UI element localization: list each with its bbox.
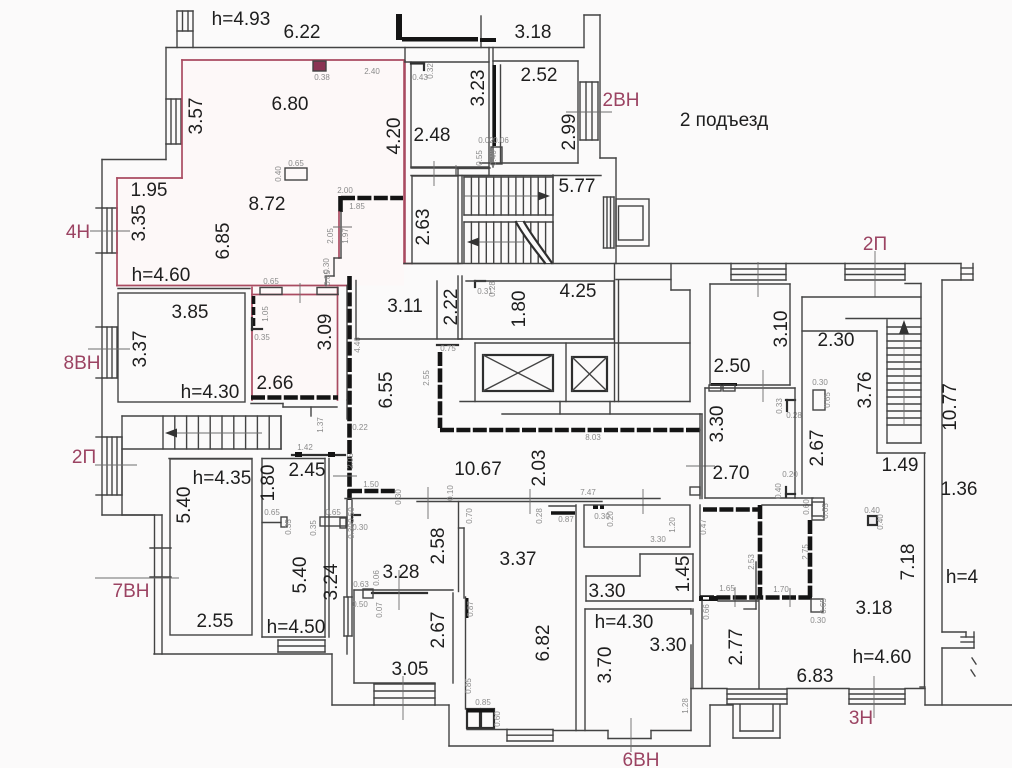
connector xyxy=(609,402,611,415)
svg-text:0.32: 0.32 xyxy=(426,63,435,79)
room 2.63 xyxy=(411,176,413,264)
svg-text:6.55: 6.55 xyxy=(376,372,397,409)
right outer wall xyxy=(941,280,943,632)
room 2.77 walls xyxy=(692,609,694,689)
wall 2.48 left upper xyxy=(404,48,406,63)
svg-text:3.30: 3.30 xyxy=(589,581,626,602)
thick wall bar 2.00 in 8.72 xyxy=(341,196,403,201)
corridor top wall y263 xyxy=(404,263,731,265)
elevator 2 X-box xyxy=(572,357,607,391)
left thick pier 2.55 xyxy=(438,352,443,428)
long wall center-bottom xyxy=(575,505,577,731)
svg-text:0.65: 0.65 xyxy=(819,598,828,614)
room 3.11 bottom xyxy=(356,338,462,340)
svg-text:8.72: 8.72 xyxy=(249,194,286,215)
svg-text:h=4.30: h=4.30 xyxy=(181,382,240,403)
black bar 1.65 xyxy=(699,596,718,601)
window 2.77 xyxy=(727,689,787,704)
svg-text:7.47: 7.47 xyxy=(580,488,596,497)
left wall window stubs xyxy=(96,208,102,495)
svg-text:0.60: 0.60 xyxy=(493,711,502,727)
svg-text:2 подъезд: 2 подъезд xyxy=(680,110,768,131)
svg-text:3.37: 3.37 xyxy=(130,331,151,368)
svg-text:0.75: 0.75 xyxy=(440,344,456,353)
svg-text:0.06: 0.06 xyxy=(372,570,381,586)
window small 3.24 xyxy=(344,597,352,636)
svg-text:3.76: 3.76 xyxy=(855,372,876,409)
svg-text:0.40: 0.40 xyxy=(274,166,283,182)
columns bottom left of 6.82 xyxy=(465,597,467,709)
svg-text:6.80: 6.80 xyxy=(272,94,309,115)
walk line down xyxy=(478,241,525,243)
svg-text:6ВН: 6ВН xyxy=(623,750,660,768)
svg-text:2П: 2П xyxy=(72,447,96,468)
svg-text:3Н: 3Н xyxy=(849,708,873,729)
door mark on red top wall xyxy=(313,61,326,71)
wall 1.42 above 2.45 xyxy=(292,454,345,456)
black bracket 0.87 top xyxy=(549,505,575,507)
stair 5.77 lower flight (vertical treads) xyxy=(464,222,553,263)
svg-text:6.83: 6.83 xyxy=(797,666,834,687)
thick bar 1.50 xyxy=(348,489,396,494)
dim 3.05 xyxy=(402,676,404,720)
svg-text:h=4.93: h=4.93 xyxy=(212,9,271,30)
facade wall 2.77/3.18 xyxy=(691,688,727,690)
svg-text:0.06: 0.06 xyxy=(493,136,509,145)
pier above stairs xyxy=(456,169,489,176)
walk line up xyxy=(464,195,540,197)
svg-text:2.70: 2.70 xyxy=(713,463,750,484)
svg-text:h=4.35: h=4.35 xyxy=(193,468,252,489)
white column 0.30/0.65 xyxy=(813,390,825,410)
svg-text:0.33: 0.33 xyxy=(775,398,784,414)
svg-text:0.30: 0.30 xyxy=(394,489,403,505)
svg-text:2.05: 2.05 xyxy=(326,228,335,244)
svg-text:2.50: 2.50 xyxy=(714,356,751,377)
svg-text:2.52: 2.52 xyxy=(521,65,558,86)
svg-text:1.50: 1.50 xyxy=(363,480,379,489)
svg-text:1.70: 1.70 xyxy=(773,585,789,594)
outline under 2.66 xyxy=(251,403,283,405)
svg-text:1.49: 1.49 xyxy=(882,455,919,476)
shaft wall thick 3.23 xyxy=(493,65,497,146)
svg-text:h=4.30: h=4.30 xyxy=(595,612,654,633)
svg-text:3.57: 3.57 xyxy=(186,98,207,135)
gray wall under red xyxy=(118,288,250,290)
wall step 1.95 xyxy=(102,159,166,161)
svg-text:1.97: 1.97 xyxy=(341,228,350,244)
svg-text:2.45: 2.45 xyxy=(289,460,326,481)
window 3.35 (4H) xyxy=(102,208,117,253)
svg-text:3.85: 3.85 xyxy=(172,302,209,323)
svg-text:0.20: 0.20 xyxy=(782,470,798,479)
svg-text:2.99: 2.99 xyxy=(559,114,580,151)
elevator outer box xyxy=(616,199,649,246)
svg-text:h=4.60: h=4.60 xyxy=(853,647,912,668)
svg-text:4.20: 4.20 xyxy=(384,118,405,155)
svg-text:0.30: 0.30 xyxy=(810,616,826,625)
thick partition 6.55 xyxy=(347,276,352,500)
svg-text:0.35: 0.35 xyxy=(309,520,318,536)
svg-text:1.80: 1.80 xyxy=(258,465,279,502)
room 3.85 xyxy=(118,293,245,402)
room B walls xyxy=(261,459,263,638)
svg-text:0.07: 0.07 xyxy=(375,602,384,618)
window 3.18 xyxy=(849,689,905,704)
red unit outline 4H xyxy=(182,59,404,61)
svg-text:0.87: 0.87 xyxy=(466,601,475,617)
room 3.30 small xyxy=(586,575,640,577)
svg-text:0.10: 0.10 xyxy=(446,485,455,501)
svg-text:0.65: 0.65 xyxy=(288,159,304,168)
svg-text:1.65: 1.65 xyxy=(719,584,735,593)
corridor lines right block xyxy=(802,296,921,298)
dim line 2BH xyxy=(566,111,612,113)
svg-text:6.82: 6.82 xyxy=(533,625,554,662)
svg-text:0.70: 0.70 xyxy=(465,508,474,524)
room 3.30/2.70 right xyxy=(704,388,706,498)
window 2P left xyxy=(102,437,122,495)
wall left of 2.30 xyxy=(801,297,803,494)
stair outline 1.49 xyxy=(877,452,925,454)
wall band above stairs xyxy=(411,167,490,169)
stair box right xyxy=(920,284,922,444)
facade wall with window 6.82 xyxy=(467,729,507,731)
window 2P-a xyxy=(731,264,786,281)
top-left window bay xyxy=(176,11,178,48)
svg-text:2.58: 2.58 xyxy=(428,528,449,565)
svg-text:0.87: 0.87 xyxy=(558,515,574,524)
stair room 5.77 walls xyxy=(411,175,601,177)
svg-text:0.28: 0.28 xyxy=(488,281,497,297)
porch 3H xyxy=(732,705,734,738)
room 2.66/3.09 red box xyxy=(251,288,253,401)
vestibule wall xyxy=(122,514,155,516)
svg-text:0.20: 0.20 xyxy=(606,511,615,527)
svg-text:2.03: 2.03 xyxy=(529,450,550,487)
svg-text:3.05: 3.05 xyxy=(392,659,429,680)
elevator inner box xyxy=(619,206,644,240)
svg-text:0.38: 0.38 xyxy=(314,73,330,82)
wall protrusion top 2BH xyxy=(583,15,585,48)
step to lower-left xyxy=(102,514,162,516)
svg-text:0.65: 0.65 xyxy=(823,392,832,408)
svg-text:1.80: 1.80 xyxy=(509,291,530,328)
corner mark bottom xyxy=(785,487,787,497)
dashed room B xyxy=(762,504,812,506)
svg-text:1.42: 1.42 xyxy=(297,443,313,452)
svg-text:0.60: 0.60 xyxy=(802,499,811,515)
svg-text:10.67: 10.67 xyxy=(454,459,502,480)
room 2.30 top xyxy=(802,330,877,332)
room A left wall xyxy=(699,505,701,597)
black corner marks 2.67 room xyxy=(786,399,795,401)
window 3.57 left xyxy=(166,99,181,144)
wall right of 2.03 xyxy=(699,430,701,499)
svg-text:2.53: 2.53 xyxy=(747,554,756,570)
shaft hatch xyxy=(604,197,615,248)
window 2P-b xyxy=(845,264,905,281)
black L mark left xyxy=(251,318,253,330)
svg-text:2.00: 2.00 xyxy=(337,186,353,195)
svg-text:0.65: 0.65 xyxy=(263,277,279,286)
svg-text:8ВН: 8ВН xyxy=(64,353,101,374)
svg-text:3.70: 3.70 xyxy=(595,647,616,684)
wall step down to h=4.60 xyxy=(334,257,341,259)
svg-text:2П: 2П xyxy=(863,234,887,255)
window 2BH xyxy=(580,82,598,140)
svg-text:3.11: 3.11 xyxy=(387,296,423,317)
unit 4H pink tint xyxy=(117,60,404,286)
svg-text:1.20: 1.20 xyxy=(668,517,677,533)
door gap wall right of h=4.30 xyxy=(744,608,756,610)
column above room A xyxy=(690,487,700,495)
wall stub right xyxy=(905,283,921,285)
corner mark 1.80 room xyxy=(475,280,485,282)
svg-text:1.85: 1.85 xyxy=(349,202,365,211)
stair cut curve xyxy=(516,222,552,263)
svg-text:2.66: 2.66 xyxy=(257,373,294,394)
small black marks 0.30/0.20 xyxy=(593,505,598,509)
svg-text:0.65: 0.65 xyxy=(264,508,280,517)
svg-text:0.40: 0.40 xyxy=(876,514,885,530)
svg-text:3.37: 3.37 xyxy=(500,549,537,570)
dashed room A xyxy=(703,507,758,512)
svg-text:0.28: 0.28 xyxy=(786,411,802,420)
small dashes right xyxy=(972,658,976,664)
elevator hall walls xyxy=(475,342,690,344)
bottom wall left block xyxy=(154,653,332,655)
lobby right box xyxy=(670,264,672,291)
shaft box below 3.23 wall xyxy=(491,147,502,164)
svg-text:2.40: 2.40 xyxy=(364,67,380,76)
svg-text:4Н: 4Н xyxy=(66,222,90,243)
window 6.82 xyxy=(507,730,553,742)
svg-text:5.77: 5.77 xyxy=(559,176,596,197)
svg-text:3.28: 3.28 xyxy=(383,562,420,583)
window tick 7BH top xyxy=(150,547,171,549)
svg-text:2.30: 2.30 xyxy=(818,330,855,351)
room 2.48 xyxy=(405,61,489,63)
svg-text:0.55: 0.55 xyxy=(475,150,484,166)
svg-text:2.55: 2.55 xyxy=(422,370,431,386)
room 3.11 top walls xyxy=(355,281,357,340)
svg-text:2.48: 2.48 xyxy=(414,125,451,146)
svg-text:1.37: 1.37 xyxy=(316,417,325,433)
svg-text:0.47: 0.47 xyxy=(699,519,708,535)
svg-text:0.28: 0.28 xyxy=(535,508,544,524)
svg-text:2ВН: 2ВН xyxy=(603,90,640,111)
svg-text:3.24: 3.24 xyxy=(321,563,342,600)
top outer wall xyxy=(166,47,584,49)
room 2.50/3.10 xyxy=(709,284,711,385)
svg-text:2.63: 2.63 xyxy=(413,209,434,246)
corner window top-right xyxy=(960,264,962,281)
svg-text:0.35: 0.35 xyxy=(254,333,270,342)
svg-text:0.22: 0.22 xyxy=(352,423,368,432)
column 0.40 xyxy=(868,516,877,525)
room 2.52 xyxy=(500,65,502,163)
svg-text:2.05: 2.05 xyxy=(346,453,355,469)
svg-text:3.30: 3.30 xyxy=(650,535,666,544)
corridor lower line xyxy=(616,279,671,281)
thick wall 8.03 xyxy=(440,428,700,433)
wall double between 4.25 and lobby xyxy=(614,264,616,402)
wall step 3.09/3.11 area xyxy=(346,286,348,401)
wall left of room 3.05 xyxy=(353,590,355,683)
corridor 3.24 walls xyxy=(346,400,348,419)
svg-text:3.09: 3.09 xyxy=(315,314,336,351)
door marks 3.28 wall xyxy=(363,589,373,598)
stair left wall xyxy=(876,331,878,453)
room 1.80/4.25 xyxy=(466,280,614,282)
svg-text:0.40: 0.40 xyxy=(774,483,783,499)
svg-text:6.22: 6.22 xyxy=(284,22,321,43)
svg-text:1.45: 1.45 xyxy=(673,556,694,593)
wall 2.22 left xyxy=(436,281,438,339)
svg-text:3.10: 3.10 xyxy=(771,311,792,348)
stair right wall xyxy=(552,175,554,264)
room h=4.30 bottom xyxy=(585,608,691,610)
entry recess 6BH xyxy=(607,731,609,739)
svg-text:2.67: 2.67 xyxy=(428,612,449,649)
svg-text:10.77: 10.77 xyxy=(940,383,961,431)
black L marks top of 3.37 room xyxy=(352,514,360,516)
svg-text:5.40: 5.40 xyxy=(174,487,195,524)
terrace edge xyxy=(449,745,710,747)
stair top edge xyxy=(464,176,553,178)
svg-text:3.35: 3.35 xyxy=(129,205,150,242)
equipment box 8.72 room xyxy=(285,168,307,180)
svg-text:7ВН: 7ВН xyxy=(113,581,150,602)
svg-text:6.85: 6.85 xyxy=(213,223,234,260)
partition 1.80/5.40 xyxy=(262,522,281,524)
stair 5.77 upper flight (vertical treads) xyxy=(464,177,553,215)
svg-text:2.77: 2.77 xyxy=(726,629,747,666)
stairs 3.76 xyxy=(887,327,921,425)
svg-text:0.66: 0.66 xyxy=(702,604,711,620)
svg-text:1.05: 1.05 xyxy=(261,306,270,322)
svg-text:0.85: 0.85 xyxy=(464,678,473,694)
svg-text:3.18: 3.18 xyxy=(856,598,893,619)
svg-text:0.50: 0.50 xyxy=(347,507,356,523)
svg-text:1.36: 1.36 xyxy=(941,479,978,500)
svg-text:8.03: 8.03 xyxy=(585,433,601,442)
svg-text:0.02: 0.02 xyxy=(478,136,494,145)
white column top xyxy=(812,502,824,520)
bay window 3.05 xyxy=(374,684,435,705)
corridor walls xyxy=(345,498,660,500)
svg-text:3.30: 3.30 xyxy=(707,406,728,443)
svg-text:0.30: 0.30 xyxy=(347,523,356,539)
corner mark 2.48 xyxy=(411,62,424,64)
bottom bar 2.66 xyxy=(251,395,338,400)
svg-text:h=4.60: h=4.60 xyxy=(132,265,191,286)
room 3.30/1.20 box xyxy=(584,505,690,547)
terrace step xyxy=(448,705,450,746)
wall 1.45 right xyxy=(755,562,757,609)
connector xyxy=(559,402,561,415)
thin wall 1.97 xyxy=(340,212,342,258)
room A h=4.35 xyxy=(170,459,252,635)
svg-text:1.28: 1.28 xyxy=(681,698,690,714)
svg-text:2.22: 2.22 xyxy=(441,289,462,326)
svg-text:3.18: 3.18 xyxy=(515,22,552,43)
svg-text:h=4.50: h=4.50 xyxy=(267,617,326,638)
white column bottom xyxy=(811,599,823,612)
window tick 7BH bottom xyxy=(150,576,171,578)
svg-text:2.67: 2.67 xyxy=(807,430,828,467)
svg-text:0.40: 0.40 xyxy=(489,150,498,166)
svg-text:0.30: 0.30 xyxy=(812,378,828,387)
svg-text:3.23: 3.23 xyxy=(468,70,489,107)
room 3.37/6.82 west wall xyxy=(458,502,460,592)
dim ticks above 2.63 xyxy=(433,161,435,186)
upper line of 8.03 wall xyxy=(502,413,700,415)
red wall h=4.60 xyxy=(117,285,347,287)
svg-text:0.35: 0.35 xyxy=(284,519,293,535)
window h=4.50 xyxy=(278,640,325,652)
svg-text:0.85: 0.85 xyxy=(323,270,332,286)
svg-text:0.40: 0.40 xyxy=(864,506,880,515)
svg-text:4.25: 4.25 xyxy=(560,281,597,302)
svg-text:3.30: 3.30 xyxy=(650,635,687,656)
svg-text:7.18: 7.18 xyxy=(898,544,919,581)
svg-text:0.50: 0.50 xyxy=(352,600,368,609)
column right of room xyxy=(795,497,813,499)
left outer wall upper xyxy=(165,48,167,100)
elevator 1 X-box xyxy=(483,355,553,391)
corridor right walls xyxy=(700,413,702,415)
svg-text:2.75: 2.75 xyxy=(801,544,810,560)
right wall window step xyxy=(942,631,966,633)
window 3.37 (8BH) xyxy=(102,327,117,378)
svg-text:2.55: 2.55 xyxy=(197,611,234,632)
svg-text:0.65: 0.65 xyxy=(821,503,830,519)
svg-text:0.85: 0.85 xyxy=(475,698,491,707)
stair landing lines xyxy=(464,214,553,216)
balcony thick walls top xyxy=(396,14,402,40)
svg-text:0.65: 0.65 xyxy=(325,508,341,517)
svg-text:1.95: 1.95 xyxy=(131,180,168,201)
stair box left xyxy=(886,320,888,443)
main stair bottom-left xyxy=(122,415,281,417)
svg-text:0.63: 0.63 xyxy=(353,580,369,589)
svg-text:5.40: 5.40 xyxy=(290,557,311,594)
dim through window xyxy=(757,262,759,297)
2P dim line xyxy=(874,251,876,297)
svg-text:h=4: h=4 xyxy=(946,567,979,588)
rooms A/B top xyxy=(169,458,252,460)
room 1.45 xyxy=(639,554,641,576)
